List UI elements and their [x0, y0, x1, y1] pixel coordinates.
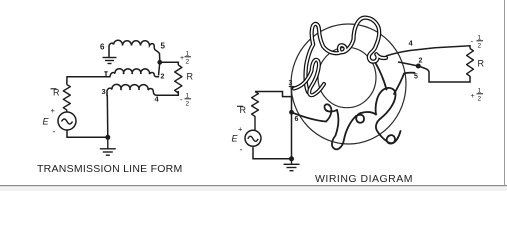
strand right face down [376, 63, 387, 90]
label -1/2 (bottom) [180, 93, 191, 108]
inductor L-bot (winding 3-4) [107, 84, 157, 95]
resistor R4 (far right, vertical) [467, 49, 474, 77]
wire winding3 left end down to ground node [106, 95, 109, 137]
winding ribbon top (double line): left face strand, loop top-left, inner loop top, loop top, inner loop upper-right [306, 18, 387, 92]
wire E1 bottom to ground node [67, 130, 108, 137]
svg-text:+: + [180, 55, 184, 62]
svg-text:+: + [471, 93, 475, 100]
terminal 3 tick [289, 86, 294, 88]
svg-text:2: 2 [186, 59, 190, 66]
svg-text:6: 6 [295, 116, 299, 123]
source E2 (sine) [245, 130, 261, 146]
lead 2 from winding to node 2 dot [398, 62, 418, 66]
svg-text:6: 6 [100, 43, 105, 52]
svg-text:E: E [43, 117, 50, 127]
ground symbol (bottom left diagram) [100, 137, 116, 155]
label -1/2 (right top) [471, 35, 484, 50]
node 2 dot (right) [416, 64, 421, 69]
lead from node 6 into winding [292, 112, 327, 121]
terminal tick 1 [104, 72, 107, 77]
inductor L-mid (winding 1-2) [104, 69, 159, 77]
label +1/2 (right bottom) [471, 88, 484, 103]
wire winding3 right end to resistor R2 bottom [157, 91, 178, 95]
strand to loop bottom-right [361, 112, 376, 114]
svg-text:5: 5 [414, 74, 418, 81]
wire 4 lead to R4 top [386, 46, 470, 56]
wire E2 bottom to ground node 2 [253, 147, 292, 159]
ground (under winding 6 end) [103, 58, 117, 64]
inductor L-top (winding 6-5) [109, 40, 160, 62]
svg-text:R: R [187, 72, 194, 82]
wire winding1 left to resistor R1 [67, 77, 104, 85]
ground symbol (right diagram) [284, 159, 300, 171]
winding inner loop bottom-left [324, 104, 337, 121]
svg-text:2: 2 [186, 101, 190, 108]
svg-text:WIRING DIAGRAM: WIRING DIAGRAM [315, 173, 413, 185]
svg-text:5: 5 [161, 42, 166, 51]
resistor R3 (left of toroid) [252, 92, 259, 131]
svg-text:-: - [240, 145, 243, 155]
winding loop bottom [332, 110, 356, 149]
svg-text:-: - [180, 95, 183, 104]
svg-text:2: 2 [161, 74, 165, 81]
wire node to resistor top [160, 62, 179, 65]
wire node2 to R4 bottom [418, 66, 470, 82]
svg-text:R: R [478, 59, 485, 69]
svg-text:-: - [471, 37, 474, 46]
toroid core inner circle [318, 47, 376, 107]
svg-text:TRANSMISSION LINE FORM: TRANSMISSION LINE FORM [37, 163, 183, 175]
svg-text:-: - [53, 127, 56, 137]
label +1/2 (top) [180, 51, 191, 66]
lead to terminal 5 [394, 73, 415, 94]
page rule right [504, 0, 505, 186]
resistor R1 (left, vertical) [63, 85, 70, 113]
svg-text:E: E [232, 134, 239, 144]
svg-text:3: 3 [102, 87, 106, 96]
svg-text:2: 2 [478, 43, 482, 50]
winding bottom strands (single line) [292, 63, 415, 149]
svg-text:2: 2 [419, 58, 423, 65]
winding left crossing loop (double line) [294, 60, 324, 96]
svg-text:+: + [51, 106, 56, 115]
svg-text:2: 2 [478, 96, 482, 103]
ground node 2 dot [289, 156, 294, 161]
source E1 (sine) [58, 112, 76, 130]
wire node down to terminal 2 [159, 62, 160, 75]
node 6 dot [289, 110, 294, 115]
vertical bus: terminal 3 down through node 6 to ground [291, 87, 293, 159]
resistor R2 (right, vertical) [175, 65, 182, 93]
winding right crossing loop + bottom-right pocket [376, 88, 401, 144]
winding inner loop bottom-mid [356, 113, 364, 123]
wire R3 top to node 3 stem [255, 92, 292, 97]
toroid core outer circle [291, 24, 406, 144]
node 5-2 junction dot [157, 60, 162, 65]
page rule bottom [0, 185, 507, 186]
svg-text:+: + [238, 125, 243, 134]
ground node junction dot [105, 135, 110, 140]
